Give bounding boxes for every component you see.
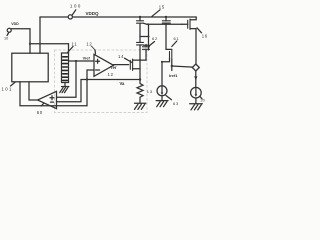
svg-text:63: 63 bbox=[173, 101, 179, 106]
svg-text:10: 10 bbox=[4, 37, 8, 41]
svg-text:Iref1: Iref1 bbox=[169, 73, 178, 78]
svg-text:VDDQ: VDDQ bbox=[86, 11, 100, 16]
svg-text:101: 101 bbox=[2, 86, 13, 91]
svg-text:13: 13 bbox=[147, 89, 153, 94]
svg-text:Ter: Ter bbox=[110, 65, 117, 70]
svg-text:14: 14 bbox=[118, 54, 124, 59]
svg-text:20: 20 bbox=[201, 99, 205, 103]
svg-text:16: 16 bbox=[202, 33, 208, 38]
svg-text:15: 15 bbox=[159, 5, 165, 10]
svg-text:100: 100 bbox=[70, 4, 82, 9]
svg-text:62: 62 bbox=[152, 36, 158, 41]
svg-text:Vref: Vref bbox=[83, 57, 91, 61]
svg-text:60: 60 bbox=[37, 110, 43, 115]
svg-text:Va: Va bbox=[120, 81, 126, 86]
svg-text:11: 11 bbox=[72, 42, 78, 47]
svg-text:61: 61 bbox=[174, 36, 180, 41]
svg-text:12: 12 bbox=[108, 72, 114, 77]
svg-text:VDD: VDD bbox=[11, 22, 19, 26]
